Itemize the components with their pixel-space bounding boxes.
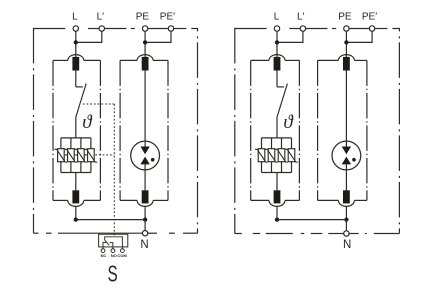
wire from bottom plug to rail junction (75, 206, 77, 219)
enclosure frame top edge segment (105, 28, 127, 30)
module bottom edge (right of plug contact) (84, 199, 101, 201)
varistor element (288, 149, 295, 162)
varistor element (258, 149, 265, 162)
wire from varistor bank to bottom plug pin (276, 173, 278, 191)
wire from terminal PE2 down and across to junction (145, 31, 171, 42)
terminal N (344, 231, 349, 236)
enclosure frame bottom edge segment (34, 232, 39, 234)
enclosure frame top edge segment (174, 28, 187, 30)
dashed linkage dash between varistors (75, 154, 77, 156)
gas discharge tube body (131, 141, 160, 170)
gas filling dot (151, 158, 155, 162)
remote signalling contact box (99, 234, 128, 247)
wire from plug pin to thermal disconnector (75, 71, 77, 87)
terminal L2 (300, 26, 305, 31)
gas discharge tube body (332, 141, 361, 170)
terminal PE2 (369, 26, 374, 31)
gas filling dot (352, 158, 356, 162)
plug-in contact receptacle arc (68, 55, 84, 61)
enclosure frame bottom edge dash (46, 232, 52, 234)
wire from terminal PE down to junction and module pin (345, 31, 347, 57)
enclosure frame right edge (398, 28, 400, 234)
varistor element (88, 149, 95, 162)
module top edge (left of plug contact) (120, 59, 137, 61)
dashed linkage through varistors (62, 154, 114, 156)
wire from terminal PE down to junction and module pin (144, 31, 146, 57)
junction node on bottom rail (spark gap path) (143, 217, 147, 221)
enclosure frame bottom edge dot (301, 233, 305, 235)
module bottom edge (left of plug contact) (120, 199, 137, 201)
plug-in contact receptacle arc (137, 55, 153, 61)
module top edge (right of plug contact) (84, 59, 101, 61)
wire from terminal L2 down and across to junction (277, 31, 303, 42)
enclosure frame bottom edge segment (374, 233, 400, 235)
dashed linkage dash between varistors (85, 154, 87, 156)
enclosure frame top edge segment (88, 28, 99, 30)
wire from spark gap lower electrode to bottom plug pin (345, 164, 347, 190)
wire from terminal L2 down and across to junction (76, 31, 102, 42)
varistor module frame right edge (99, 60, 101, 200)
enclosure frame bottom edge segment (266, 233, 293, 235)
enclosure frame top edge dash (332, 28, 336, 30)
gas discharge tube upper electrode (342, 147, 351, 155)
changeover contact blade (105, 240, 109, 245)
thermal disconnector fixed contact (277, 86, 284, 88)
terminal L (73, 26, 78, 31)
gas discharge tube lower electrode (140, 157, 149, 165)
varistor branch 3 wire (80, 138, 82, 173)
wire from bottom plug to rail junction (345, 206, 347, 219)
enclosure frame top edge dash (131, 28, 135, 30)
plug-in contact pin (72, 57, 79, 71)
spark-gap module frame left edge (119, 60, 121, 200)
changeover contact common conductor (105, 237, 123, 247)
svg-text:S: S (108, 261, 118, 287)
varistor branch 2 wire (271, 138, 273, 173)
enclosure frame top edge segment (306, 28, 328, 30)
terminal PE2 (168, 26, 173, 31)
enclosure frame top edge segment (289, 28, 300, 30)
junction node on bottom rail (varistor path) (275, 217, 279, 221)
varistor module frame left edge (52, 60, 54, 200)
varistor bank bottom bus (61, 172, 91, 174)
wire from rail junction to terminal N (144, 220, 146, 231)
enclosure frame bottom edge dash (311, 233, 323, 235)
varistor branch 1 wire (261, 138, 263, 173)
varistor module frame left edge (250, 60, 252, 200)
varistor module frame right edge (298, 60, 300, 200)
varistor branch 4 wire (291, 138, 293, 173)
svg-text:PE: PE (338, 12, 352, 23)
varistor element (278, 149, 285, 162)
thermal disconnector fixed contact (76, 86, 83, 88)
wire from plug pin to thermal disconnector (276, 71, 278, 87)
plug-in contact pin (274, 190, 281, 203)
module bottom edge (right of plug contact) (153, 199, 168, 201)
plug-in contact receptacle arc (338, 200, 354, 206)
wire from terminal L down to junction and module pin (75, 31, 77, 57)
varistor branch 4 wire (90, 138, 92, 173)
wire from plug pin to spark gap upper electrode (144, 71, 146, 147)
svg-text:N: N (343, 239, 351, 251)
wire from terminal PE2 down and across to junction (346, 31, 372, 42)
dashed linkage vertical to remote contact (113, 104, 115, 237)
svg-text:COM: COM (117, 253, 127, 258)
wire from bottom plug to rail junction (276, 206, 278, 219)
junction node L (74, 40, 78, 44)
plug-in contact pin (274, 57, 281, 71)
plug-in contact pin (343, 57, 350, 71)
enclosure frame bottom edge segment (148, 232, 157, 234)
svg-text:PE: PE (136, 12, 150, 23)
plug-in contact receptacle arc (269, 55, 285, 61)
svg-text:L′: L′ (297, 12, 305, 23)
module bottom edge (left of plug contact) (251, 199, 269, 201)
wire from spark gap lower electrode to bottom plug pin (144, 164, 146, 190)
varistor element (68, 149, 75, 162)
enclosure frame bottom edge segment (349, 233, 359, 235)
gas discharge tube upper electrode (140, 147, 149, 155)
enclosure frame top edge segment (375, 28, 388, 30)
enclosure frame bottom edge dash (169, 232, 175, 234)
enclosure frame top edge segment (34, 28, 66, 30)
terminal NO stem (112, 247, 114, 249)
enclosure frame left edge (33, 28, 35, 233)
terminal COM stem (121, 247, 123, 249)
svg-text:ϑ: ϑ (283, 112, 294, 133)
enclosure frame bottom edge segment (235, 233, 242, 235)
varistor element (78, 149, 85, 162)
spark-gap module frame left edge (317, 60, 319, 200)
svg-text:NO: NO (111, 253, 117, 258)
enclosure frame left edge (234, 28, 236, 234)
svg-text:N: N (140, 239, 148, 251)
terminal NC stem (102, 247, 104, 249)
module bottom edge (right of plug contact) (354, 199, 367, 201)
wire from plug pin to spark gap upper electrode (345, 71, 347, 147)
junction node on bottom rail (spark gap path) (344, 217, 348, 221)
module bottom edge (left of plug contact) (53, 199, 68, 201)
plug-in contact pin (343, 190, 350, 203)
varistor branch 3 wire (281, 138, 283, 173)
junction node L (275, 40, 279, 44)
terminal COM (121, 249, 125, 253)
wire from bottom plug to rail junction (144, 206, 146, 219)
wire from rail junction to terminal N (345, 220, 347, 231)
module top edge (right of plug contact) (285, 59, 299, 61)
module bottom edge (left of plug contact) (318, 199, 339, 201)
terminal PE (344, 26, 349, 31)
varistor branch 2 wire (70, 138, 72, 173)
enclosure frame bottom edge dash (253, 233, 260, 235)
junction node PE (143, 40, 147, 44)
spark-gap module frame right edge (366, 60, 368, 200)
varistor branch 1 wire (60, 138, 62, 173)
NC fixed contact (103, 242, 106, 247)
plug-in contact receptacle arc (137, 200, 153, 206)
enclosure frame top edge segment (235, 28, 267, 30)
module top edge (left of plug contact) (251, 59, 269, 61)
gas discharge tube lower electrode (342, 157, 351, 165)
enclosure frame bottom edge dot (365, 233, 367, 235)
terminal NC (101, 249, 105, 253)
enclosure frame top edge segment (349, 28, 369, 30)
spark-gap module frame right edge (167, 60, 169, 200)
enclosure frame bottom edge segment (328, 233, 343, 235)
module bottom edge (right of plug contact) (285, 199, 299, 201)
dashed linkage from thermal disconnector (83, 103, 115, 105)
varistor bank top bus (262, 137, 292, 139)
svg-text:PE′: PE′ (362, 12, 377, 23)
varistor bank top bus (61, 137, 91, 139)
terminal L (274, 26, 279, 31)
enclosure frame top edge segment (392, 28, 399, 30)
bottom rail wire (76, 219, 145, 221)
enclosure frame top edge segment (191, 28, 197, 30)
plug-in contact pin (142, 57, 149, 71)
varistor bank bottom bus (262, 172, 292, 174)
terminal L2 (99, 26, 104, 31)
thermal disconnector blade (76, 84, 86, 118)
plug-in contact receptacle arc (338, 55, 354, 61)
bottom rail wire (277, 219, 346, 221)
terminal NO (111, 249, 115, 253)
wire from terminal L down to junction and module pin (276, 31, 278, 57)
NO fixed contact (110, 243, 113, 247)
plug-in contact receptacle arc (68, 200, 84, 206)
svg-text:PE′: PE′ (160, 12, 175, 23)
enclosure frame bottom edge segment (58, 232, 142, 234)
module top edge (right of plug contact) (153, 59, 168, 61)
svg-text:ϑ: ϑ (82, 112, 93, 133)
varistor element (58, 149, 65, 162)
plug-in contact pin (72, 190, 79, 203)
terminal PE (142, 26, 147, 31)
plug-in contact pin (142, 190, 149, 203)
junction node PE (344, 40, 348, 44)
enclosure frame bottom edge segment (183, 232, 198, 234)
wire from varistor bank to bottom plug pin (75, 173, 77, 191)
terminal N (142, 231, 147, 236)
thermal disconnector blade (277, 84, 287, 118)
enclosure frame top edge segment (148, 28, 169, 30)
module top edge (left of plug contact) (53, 59, 68, 61)
varistor element (268, 149, 275, 162)
module top edge (left of plug contact) (318, 59, 339, 61)
dashed linkage dash between varistors (65, 154, 67, 156)
wire from disconnector to varistor bank (75, 117, 77, 138)
plug-in contact receptacle arc (269, 200, 285, 206)
svg-text:L′: L′ (97, 12, 105, 23)
module top edge (right of plug contact) (354, 59, 367, 61)
enclosure frame right edge (197, 28, 199, 233)
wire from disconnector to varistor bank (276, 117, 278, 138)
svg-text:L: L (274, 12, 280, 23)
svg-text:NC: NC (101, 253, 107, 258)
svg-text:L: L (72, 12, 78, 23)
junction node on bottom rail (varistor path) (74, 217, 78, 221)
